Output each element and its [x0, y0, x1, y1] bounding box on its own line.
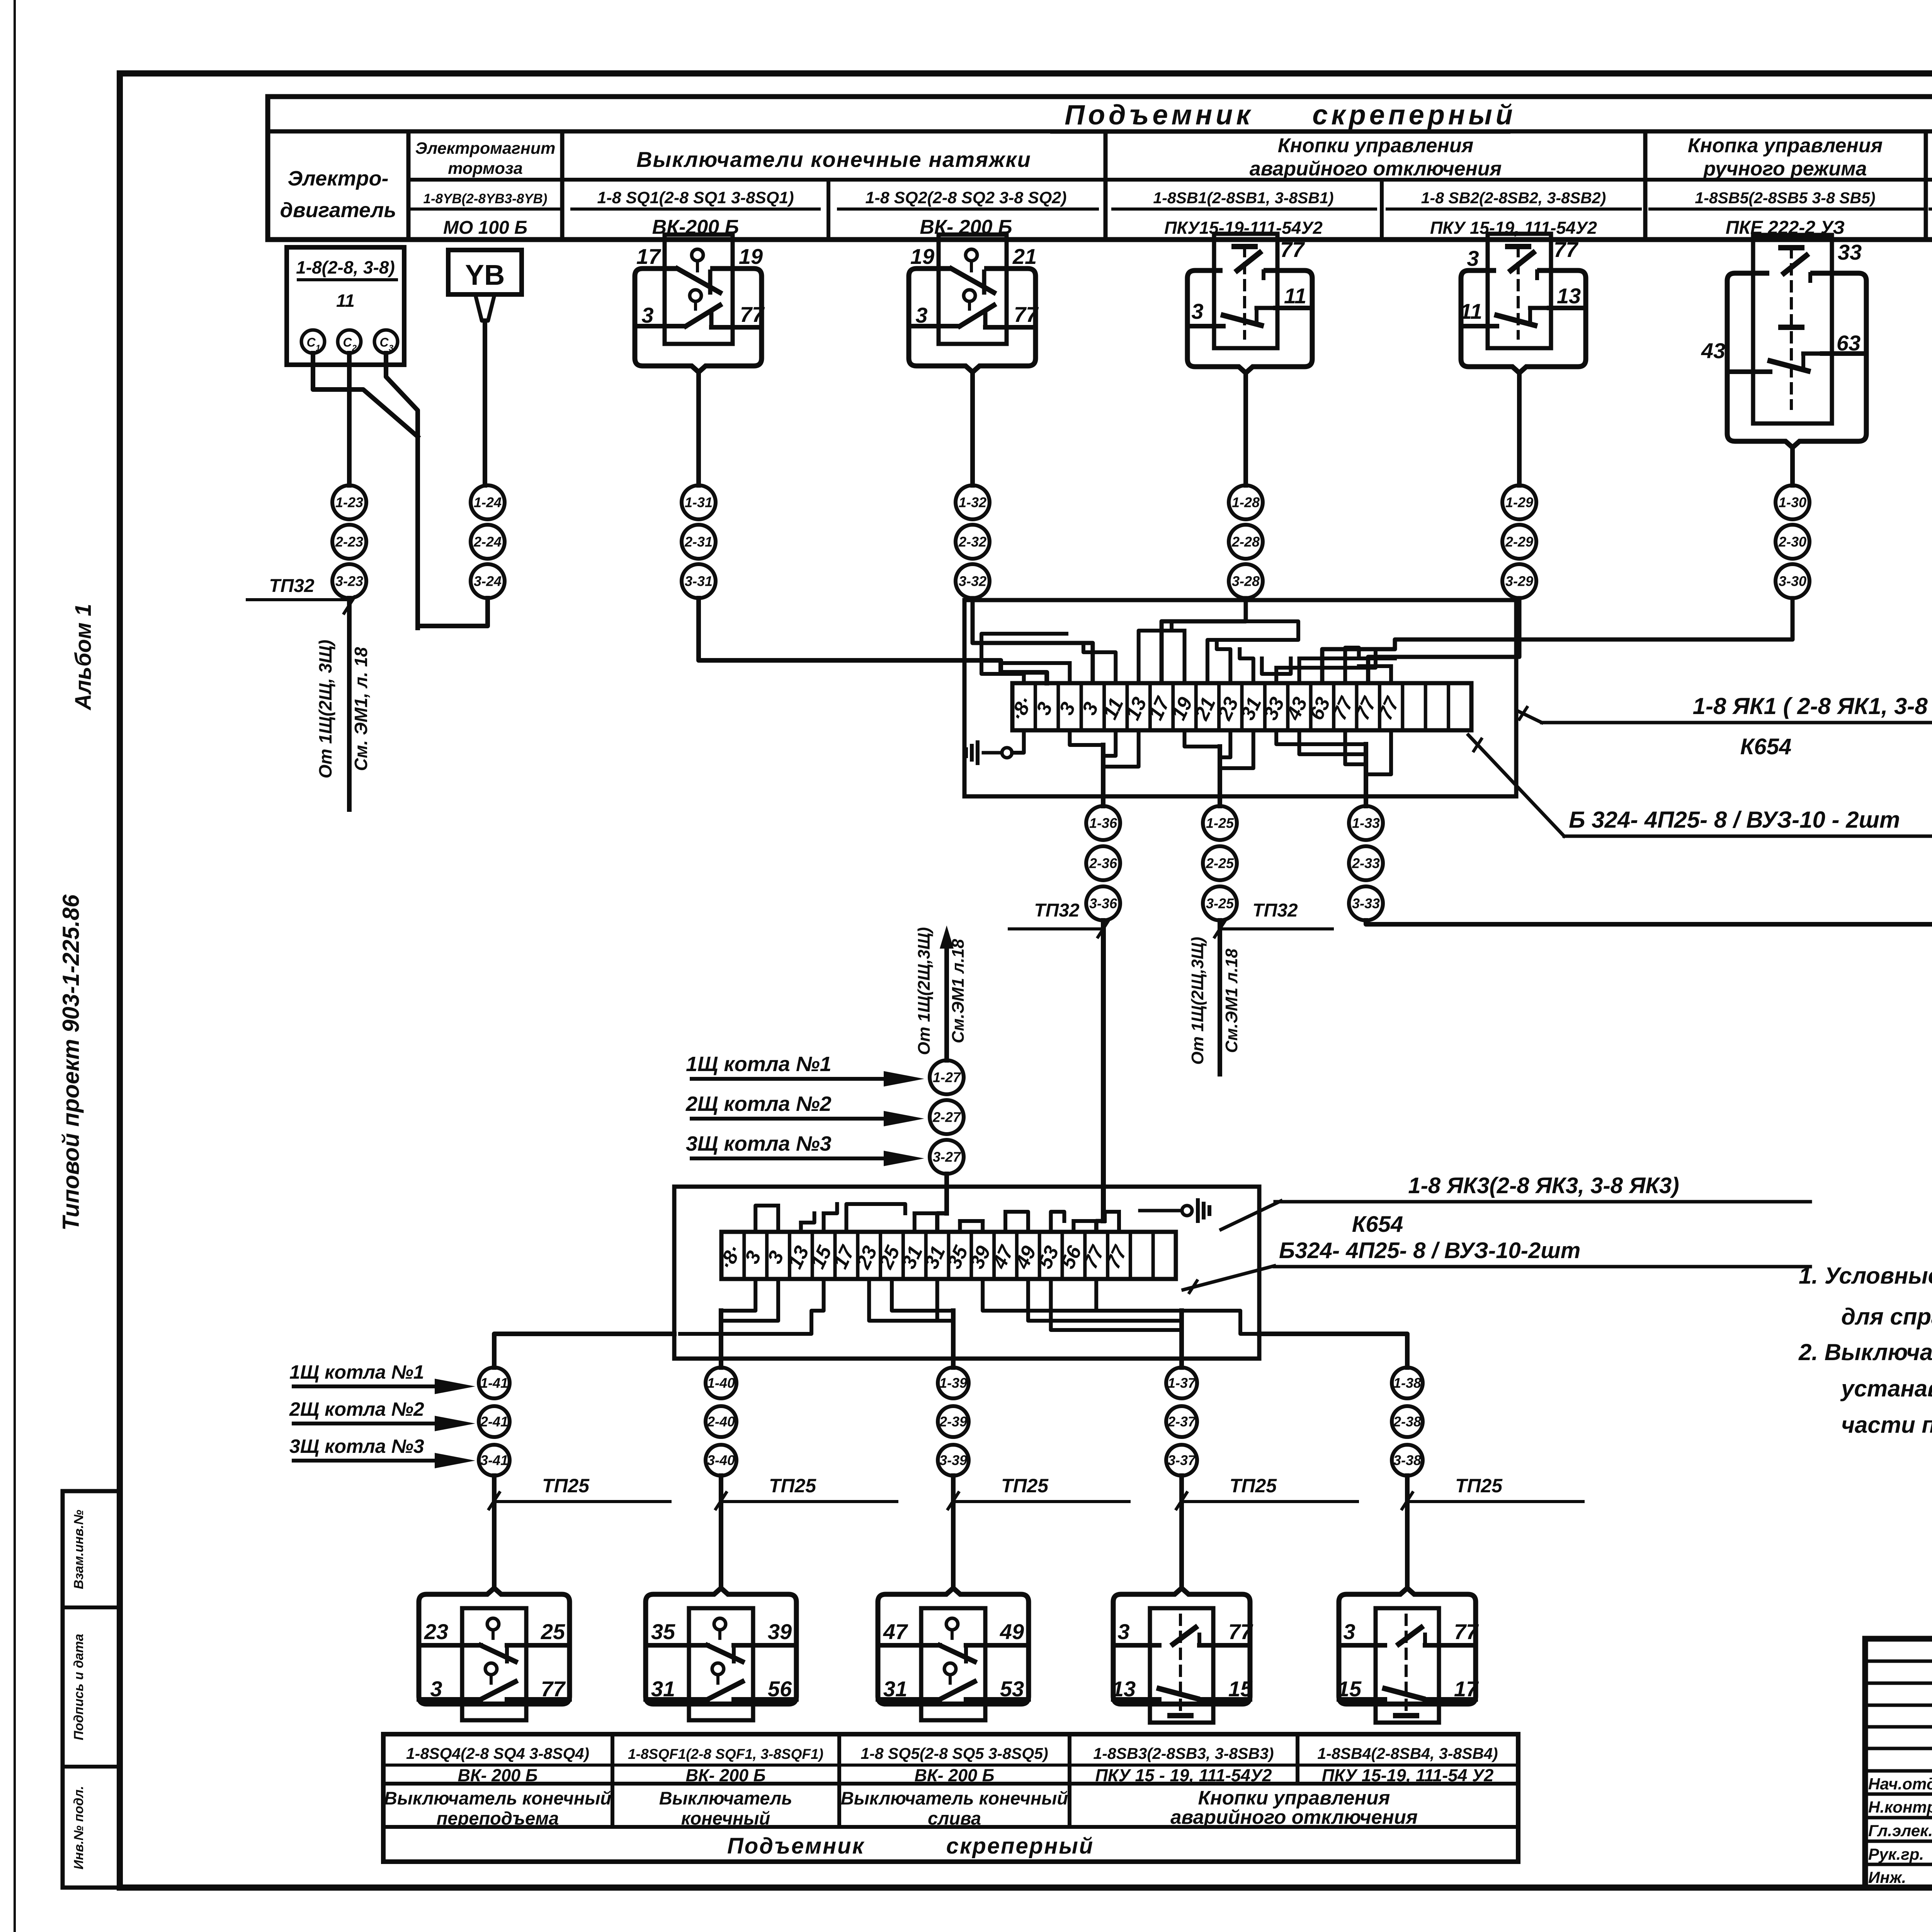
svg-text:21: 21 — [1012, 244, 1037, 269]
svg-text:63: 63 — [1837, 331, 1861, 355]
svg-text:3: 3 — [1343, 1619, 1355, 1644]
svg-text:ТП32: ТП32 — [1252, 900, 1298, 921]
svg-text:1-38: 1-38 — [1393, 1375, 1421, 1391]
svg-text:Электро-: Электро- — [287, 167, 388, 190]
svg-text:Нач.отд.: Нач.отд. — [1868, 1775, 1932, 1793]
svg-text:Рук.гр.: Рук.гр. — [1868, 1845, 1924, 1863]
svg-text:2-25: 2-25 — [1206, 855, 1234, 871]
svg-text:1-8 ЯК3(2-8 ЯК3, 3-8 ЯК3): 1-8 ЯК3(2-8 ЯК3, 3-8 ЯК3) — [1408, 1173, 1679, 1198]
svg-text:1-8 SQ2(2-8 SQ2 3-8 SQ2): 1-8 SQ2(2-8 SQ2 3-8 SQ2) — [866, 189, 1067, 207]
svg-text:3-36: 3-36 — [1089, 896, 1117, 912]
svg-text:Альбом 1: Альбом 1 — [71, 604, 96, 711]
svg-text:ручного режима: ручного режима — [1703, 158, 1867, 180]
svg-text:1-37: 1-37 — [1168, 1375, 1196, 1391]
svg-text:1Щ котла №1: 1Щ котла №1 — [289, 1361, 424, 1383]
svg-text:ВК- 200 Б: ВК- 200 Б — [685, 1765, 765, 1785]
svg-text:3: 3 — [430, 1677, 442, 1701]
svg-text:1-8 ЯК1 ( 2-8 ЯК1, 3-8 ЯК1: 1-8 ЯК1 ( 2-8 ЯК1, 3-8 ЯК1) — [1693, 693, 1932, 719]
svg-text:YB: YB — [465, 259, 505, 291]
svg-text:1-31: 1-31 — [685, 495, 713, 510]
svg-text:2-39: 2-39 — [939, 1414, 967, 1430]
svg-text:23: 23 — [424, 1619, 448, 1644]
svg-text:ВК- 200 Б: ВК- 200 Б — [457, 1765, 537, 1785]
svg-text:77: 77 — [740, 302, 765, 327]
svg-text:77: 77 — [1014, 302, 1039, 327]
svg-text:К654: К654 — [1740, 734, 1791, 759]
svg-text:3: 3 — [1117, 1619, 1129, 1644]
svg-text:Б 324- 4П25- 8 / ВУЗ-10 - 2шт: Б 324- 4П25- 8 / ВУЗ-10 - 2шт — [1569, 807, 1900, 833]
svg-text:ПКУ 15-19, 111-54 У2: ПКУ 15-19, 111-54 У2 — [1322, 1765, 1494, 1785]
svg-text:Н.контр: Н.контр — [1868, 1798, 1932, 1816]
svg-text:1-8SB5(2-8SB5 3-8 SB5): 1-8SB5(2-8SB5 3-8 SB5) — [1695, 189, 1875, 207]
svg-text:2-36: 2-36 — [1089, 855, 1117, 871]
svg-text:См.ЭМ1 л.18: См.ЭМ1 л.18 — [949, 939, 968, 1043]
svg-text:19: 19 — [739, 244, 763, 269]
svg-text:3: 3 — [915, 303, 927, 327]
svg-text:17: 17 — [1454, 1677, 1479, 1701]
svg-text:C: C — [379, 335, 389, 349]
svg-text:1. Условные обозначения ,: 1. Условные обозначения , примечания и ч… — [1799, 1263, 1932, 1289]
svg-text:1-8SB4(2-8SB4, 3-8SB4): 1-8SB4(2-8SB4, 3-8SB4) — [1317, 1745, 1498, 1762]
svg-text:1-40: 1-40 — [707, 1375, 735, 1391]
svg-text:25: 25 — [541, 1619, 565, 1644]
svg-text:От 1Щ(2Щ, 3Щ): От 1Щ(2Щ, 3Щ) — [315, 640, 335, 779]
svg-text:1-23: 1-23 — [335, 495, 363, 510]
svg-text:1-41: 1-41 — [480, 1375, 508, 1391]
svg-text:Кнопка управления: Кнопка управления — [1688, 134, 1883, 157]
svg-text:2. Выключатели конечные зака: 2. Выключатели конечные заказываются и — [1798, 1339, 1932, 1365]
svg-text:Инж.: Инж. — [1868, 1868, 1906, 1886]
svg-text:1: 1 — [316, 343, 320, 353]
svg-text:15: 15 — [1228, 1677, 1253, 1701]
svg-text:2-31: 2-31 — [684, 534, 713, 550]
svg-text:ТП32: ТП32 — [1034, 900, 1080, 921]
svg-text:ТП25: ТП25 — [1455, 1475, 1503, 1497]
svg-text:3-27: 3-27 — [933, 1149, 961, 1165]
svg-text:56: 56 — [768, 1677, 792, 1701]
svg-text:двигатель: двигатель — [280, 199, 396, 222]
svg-text:См. ЭМ1, л. 18: См. ЭМ1, л. 18 — [351, 647, 371, 771]
svg-text:ТП25: ТП25 — [769, 1475, 816, 1497]
svg-text:3Щ котла №3: 3Щ котла №3 — [289, 1435, 424, 1457]
svg-text:слива: слива — [928, 1808, 981, 1828]
svg-text:1-8 SQ1(2-8 SQ1 3-8SQ1): 1-8 SQ1(2-8 SQ1 3-8SQ1) — [597, 189, 794, 207]
svg-text:тормоза: тормоза — [448, 159, 523, 178]
svg-text:3-40: 3-40 — [707, 1452, 735, 1468]
svg-text:3-24: 3-24 — [474, 573, 502, 589]
svg-text:ТП32: ТП32 — [269, 576, 315, 596]
svg-text:ТП25: ТП25 — [1001, 1475, 1049, 1497]
svg-text:2-28: 2-28 — [1231, 534, 1260, 550]
svg-text:1-27: 1-27 — [933, 1070, 961, 1085]
svg-text:1-8SB3(2-8SB3, 3-8SB3): 1-8SB3(2-8SB3, 3-8SB3) — [1093, 1745, 1274, 1762]
svg-text:3-39: 3-39 — [939, 1452, 967, 1468]
svg-text:аварийного отключения: аварийного отключения — [1250, 158, 1502, 180]
svg-text:3: 3 — [641, 303, 653, 327]
svg-text:конечный: конечный — [681, 1808, 770, 1828]
svg-text:2-23: 2-23 — [335, 534, 363, 550]
svg-text:Инв.№ подл.: Инв.№ подл. — [71, 1786, 86, 1870]
svg-text:Б324- 4П25- 8 / ВУЗ-10-2шт: Б324- 4П25- 8 / ВУЗ-10-2шт — [1279, 1238, 1580, 1263]
svg-text:53: 53 — [1000, 1677, 1024, 1701]
svg-text:11: 11 — [1284, 284, 1306, 308]
svg-text:МО 100 Б: МО 100 Б — [443, 218, 527, 238]
svg-text:Электромагнит: Электромагнит — [415, 139, 556, 158]
svg-text:1-39: 1-39 — [939, 1375, 967, 1391]
svg-text:13: 13 — [1112, 1677, 1136, 1701]
svg-text:2-38: 2-38 — [1393, 1414, 1421, 1430]
svg-text:43: 43 — [1701, 338, 1725, 363]
svg-text:3: 3 — [389, 343, 393, 353]
svg-text:1-25: 1-25 — [1206, 815, 1234, 831]
svg-text:Выключатель: Выключатель — [659, 1788, 793, 1808]
svg-text:31: 31 — [883, 1677, 907, 1701]
svg-text:2-32: 2-32 — [958, 534, 986, 550]
svg-text:Типовой проект 903-1-225.86: Типовой проект 903-1-225.86 — [58, 895, 84, 1231]
svg-text:аварийного отключения: аварийного отключения — [1170, 1806, 1418, 1828]
svg-text:От 1Щ(2Щ,3Щ): От 1Щ(2Щ,3Щ) — [1188, 937, 1207, 1065]
svg-text:C: C — [306, 335, 316, 349]
svg-text:скреперный: скреперный — [1312, 100, 1516, 131]
svg-text:Кнопки управления: Кнопки управления — [1278, 134, 1474, 157]
svg-text:1-8SQ4(2-8 SQ4 3-8SQ4): 1-8SQ4(2-8 SQ4 3-8SQ4) — [406, 1745, 589, 1762]
svg-text:3-37: 3-37 — [1168, 1452, 1196, 1468]
svg-text:устанавливаются в тепломехан: устанавливаются в тепломеханической — [1840, 1376, 1932, 1401]
svg-text:3-33: 3-33 — [1352, 896, 1380, 912]
svg-text:2-29: 2-29 — [1505, 534, 1533, 550]
svg-text:части проекта Ал. 2.6 ; 2: части проекта Ал. 2.6 ; 2.7. — [1841, 1412, 1932, 1438]
svg-text:77: 77 — [541, 1677, 566, 1701]
svg-text:3: 3 — [1191, 299, 1203, 323]
svg-text:1-8SB1(2-8SB1, 3-8SB1): 1-8SB1(2-8SB1, 3-8SB1) — [1153, 189, 1333, 207]
svg-text:2-27: 2-27 — [932, 1109, 961, 1125]
svg-text:переподъема: переподъема — [437, 1808, 559, 1828]
svg-text:3-29: 3-29 — [1505, 573, 1533, 589]
svg-text:1-33: 1-33 — [1352, 815, 1380, 831]
svg-text:Подъемник: Подъемник — [1065, 100, 1253, 131]
svg-text:1-36: 1-36 — [1089, 815, 1117, 831]
svg-text:77: 77 — [1554, 237, 1579, 262]
svg-text:К654: К654 — [1352, 1212, 1403, 1237]
svg-text:Кнопки управления: Кнопки управления — [1198, 1787, 1390, 1809]
svg-text:2-37: 2-37 — [1167, 1414, 1196, 1430]
svg-text:Подпись и дата: Подпись и дата — [71, 1634, 86, 1740]
svg-text:C: C — [343, 335, 352, 349]
svg-text:1-8YB(2-8YB3-8YB): 1-8YB(2-8YB3-8YB) — [423, 191, 548, 206]
svg-text:33: 33 — [1838, 240, 1862, 264]
svg-text:1-28: 1-28 — [1232, 495, 1260, 510]
svg-text:Взам.инв.№: Взам.инв.№ — [71, 1510, 86, 1589]
svg-text:31: 31 — [651, 1677, 675, 1701]
svg-text:77: 77 — [1454, 1619, 1479, 1644]
svg-text:3-41: 3-41 — [480, 1452, 508, 1468]
svg-text:19: 19 — [910, 244, 934, 269]
svg-text:3: 3 — [1467, 246, 1479, 270]
svg-text:От 1Щ(2Щ,3Щ): От 1Щ(2Щ,3Щ) — [915, 927, 934, 1055]
svg-text:39: 39 — [768, 1619, 792, 1644]
svg-text:49: 49 — [1000, 1619, 1024, 1644]
svg-text:13: 13 — [1557, 284, 1581, 308]
svg-text:1-8 SB2(2-8SB2, 3-8SB2): 1-8 SB2(2-8SB2, 3-8SB2) — [1421, 189, 1606, 207]
svg-text:ТП25: ТП25 — [542, 1475, 590, 1497]
svg-text:77: 77 — [1228, 1619, 1253, 1644]
svg-text:3-28: 3-28 — [1232, 573, 1260, 589]
svg-text:2-40: 2-40 — [707, 1414, 735, 1430]
svg-text:2-24: 2-24 — [473, 534, 502, 550]
svg-text:15: 15 — [1337, 1677, 1362, 1701]
svg-text:1-32: 1-32 — [959, 495, 986, 510]
svg-text:1-8 SQ5(2-8 SQ5 3-8SQ5): 1-8 SQ5(2-8 SQ5 3-8SQ5) — [861, 1745, 1048, 1762]
svg-text:ТП25: ТП25 — [1230, 1475, 1277, 1497]
svg-text:77: 77 — [1280, 237, 1305, 262]
svg-text:Выключатели конечные натяжки: Выключатели конечные натяжки — [636, 147, 1031, 172]
svg-text:для справок см. ЭМ1 л. 18.: для справок см. ЭМ1 л. 18. — [1841, 1304, 1932, 1330]
svg-text:35: 35 — [651, 1619, 675, 1644]
svg-text:47: 47 — [883, 1619, 908, 1644]
svg-text:Гл.элек.: Гл.элек. — [1868, 1821, 1932, 1840]
svg-text:2Щ котла №2: 2Щ котла №2 — [289, 1398, 424, 1420]
svg-text:3-30: 3-30 — [1779, 573, 1806, 589]
svg-text:ПКУ 15 - 19, 111-54У2: ПКУ 15 - 19, 111-54У2 — [1095, 1765, 1272, 1785]
svg-text:2Щ котла №2: 2Щ котла №2 — [685, 1092, 832, 1116]
svg-text:Подъемник: Подъемник — [727, 1833, 865, 1859]
svg-text:1-29: 1-29 — [1505, 495, 1533, 510]
svg-text:1Щ котла №1: 1Щ котла №1 — [686, 1053, 832, 1076]
svg-text:1-8(2-8, 3-8): 1-8(2-8, 3-8) — [296, 257, 395, 277]
svg-text:11: 11 — [1460, 299, 1482, 323]
svg-text:1-30: 1-30 — [1779, 495, 1806, 510]
svg-text:Выключатель конечный: Выключатель конечный — [841, 1788, 1068, 1808]
svg-text:3-23: 3-23 — [335, 573, 363, 589]
svg-text:См.ЭМ1 л.18: См.ЭМ1 л.18 — [1222, 948, 1241, 1053]
svg-text:3-31: 3-31 — [685, 573, 713, 589]
svg-text:3-38: 3-38 — [1393, 1452, 1421, 1468]
svg-text:3Щ котла №3: 3Щ котла №3 — [686, 1132, 832, 1155]
svg-text:3-25: 3-25 — [1206, 896, 1234, 912]
svg-text:ВК- 200 Б: ВК- 200 Б — [914, 1765, 994, 1785]
svg-text:Выключатель конечный: Выключатель конечный — [384, 1788, 611, 1808]
svg-text:2: 2 — [352, 343, 357, 353]
svg-text:1-24: 1-24 — [474, 495, 502, 510]
svg-text:17: 17 — [636, 244, 662, 269]
svg-text:11: 11 — [336, 291, 355, 311]
svg-text:скреперный: скреперный — [946, 1833, 1094, 1859]
svg-text:2-30: 2-30 — [1778, 534, 1806, 550]
svg-text:2-41: 2-41 — [480, 1414, 508, 1430]
svg-text:3-32: 3-32 — [959, 573, 986, 589]
svg-text:2-33: 2-33 — [1352, 855, 1380, 871]
svg-text:1-8SQF1(2-8 SQF1, 3-8SQF1): 1-8SQF1(2-8 SQF1, 3-8SQF1) — [628, 1746, 823, 1762]
